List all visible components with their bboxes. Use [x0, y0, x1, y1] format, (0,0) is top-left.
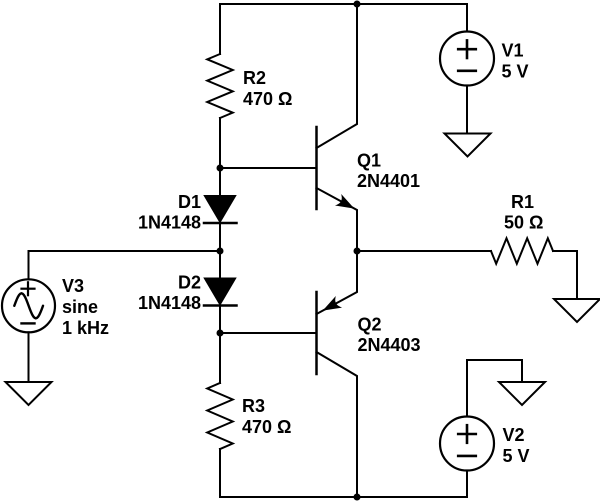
svg-text:R2: R2 [243, 68, 266, 88]
ground (V2) [499, 382, 545, 405]
wire V1 to ground [466, 86, 468, 134]
wire Q1 base [220, 167, 317, 169]
wire output node to R1 [357, 250, 491, 252]
svg-text:470 Ω: 470 Ω [242, 417, 291, 437]
wire bottom rail [220, 496, 467, 498]
svg-text:470 Ω: 470 Ω [243, 89, 292, 109]
svg-text:sine: sine [62, 297, 98, 317]
svg-text:D1: D1 [178, 192, 201, 212]
svg-text:5 V: 5 V [502, 62, 529, 82]
svg-text:50 Ω: 50 Ω [504, 213, 543, 233]
wire V3 to diode node [29, 251, 221, 280]
resistor R3 [207, 383, 233, 449]
svg-text:1N4148: 1N4148 [138, 293, 201, 313]
wire Q2 base [220, 332, 317, 334]
transistor Q1 [317, 4, 358, 251]
node: top rail junction [354, 1, 361, 8]
svg-text:1 kHz: 1 kHz [62, 318, 109, 338]
node: bottom rail junction [354, 494, 361, 501]
svg-text:R3: R3 [242, 396, 265, 416]
wire R1 to ground [553, 251, 577, 299]
svg-text:D2: D2 [178, 273, 201, 293]
diode D2 [204, 279, 237, 306]
node: output junction [354, 248, 361, 255]
wire D1 to D2 [219, 223, 221, 279]
svg-text:5 V: 5 V [503, 446, 530, 466]
svg-text:R1: R1 [511, 192, 534, 212]
node: Q2 base / diode bottom junction [217, 330, 224, 337]
wire V2 top to ground [467, 360, 522, 417]
transistor Q2 [317, 251, 358, 497]
wire V2 bottom lead [466, 471, 468, 498]
svg-text:Q2: Q2 [358, 315, 382, 335]
node: input / diode mid junction [217, 248, 224, 255]
ground (V3) [6, 382, 52, 405]
voltage source V2 [440, 417, 494, 471]
svg-text:2N4403: 2N4403 [358, 335, 421, 355]
voltage source V3 [2, 279, 55, 332]
wire V3 to ground [28, 332, 30, 382]
node: Q1 base / diode top junction [217, 165, 224, 172]
voltage source V1 [440, 32, 494, 86]
svg-text:2N4401: 2N4401 [357, 171, 420, 191]
wire top rail [220, 3, 467, 5]
wire V1 top lead [466, 4, 468, 32]
resistor R1 [491, 238, 553, 264]
wire R2 to D1 [219, 118, 221, 196]
svg-text:V3: V3 [62, 276, 84, 296]
wire D2 to R3 [219, 306, 221, 384]
ground (R1) [554, 299, 600, 322]
svg-text:1N4148: 1N4148 [138, 213, 201, 233]
ground (V1) [445, 134, 491, 157]
svg-text:V1: V1 [502, 41, 524, 61]
svg-text:Q1: Q1 [357, 151, 381, 171]
wire left branch top (rail to R2) [219, 4, 221, 54]
wire R3 to bottom rail [219, 449, 221, 497]
diode D1 [204, 196, 237, 223]
svg-text:V2: V2 [503, 425, 525, 445]
resistor R2 [207, 54, 233, 118]
